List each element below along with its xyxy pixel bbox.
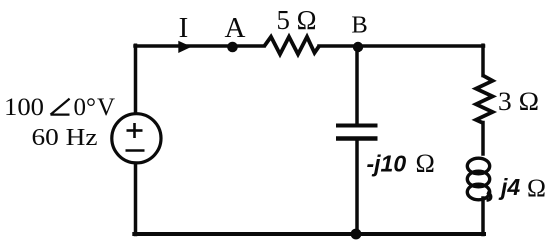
svg-text:A: A (225, 12, 246, 44)
svg-text:Ω: Ω (527, 173, 546, 202)
svg-text:3 Ω: 3 Ω (498, 87, 539, 116)
voltage source V1 circle (112, 114, 161, 163)
bottom junction dot (351, 229, 362, 240)
wire right vertical upper (top corner to 3-ohm resistor) (481, 45, 485, 75)
node B junction dot (353, 42, 363, 52)
svg-text:60 Hz: 60 Hz (32, 125, 98, 151)
svg-text:Ω: Ω (416, 149, 435, 178)
resistor R1 5-ohm zigzag (264, 37, 319, 54)
svg-text:5 Ω: 5 Ω (277, 5, 317, 35)
svg-text:I: I (179, 12, 189, 44)
resistor R2 3-ohm zigzag (476, 76, 493, 124)
svg-text:V: V (97, 94, 115, 121)
wire right vertical middle (3-ohm to inductor) (481, 123, 485, 155)
node A junction dot (227, 42, 238, 53)
voltage source minus sign (126, 149, 145, 152)
wire left vertical lower (source bottom to bottom wire) (134, 164, 138, 234)
wire top segment between resistor and node B / right corner (319, 44, 484, 48)
wire left vertical upper (source top to top wire) (134, 45, 138, 113)
voltage source plus sign (127, 123, 143, 138)
capacitor C1 bottom plate (336, 136, 378, 140)
wire middle vertical upper (node B to capacitor) (355, 46, 359, 124)
wire middle vertical lower (capacitor to bottom junction) (355, 140, 359, 234)
inductor L1 coil loop 2 (467, 171, 489, 187)
current arrow I (178, 41, 191, 53)
wire bottom horizontal (134, 232, 484, 236)
angle symbol (51, 99, 70, 115)
wire top-left horizontal segment (135, 44, 264, 48)
capacitor C1 top plate (336, 124, 378, 128)
svg-text:j4: j4 (498, 174, 520, 200)
wire right vertical lower (inductor to bottom wire) (481, 198, 485, 235)
svg-text:0°: 0° (74, 94, 97, 121)
svg-text:B: B (351, 12, 367, 39)
inductor L1 coil loop 3 (467, 184, 489, 200)
inductor L1 coil loop 1 (467, 158, 489, 174)
inductor L1 bottom tail hook (487, 193, 491, 201)
svg-text:100: 100 (4, 94, 44, 121)
svg-text:-j10: -j10 (367, 151, 407, 177)
